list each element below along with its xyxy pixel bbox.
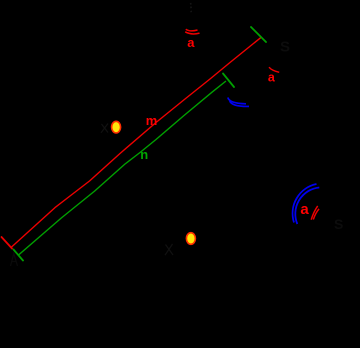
faint dashed vertical line top [190, 3, 193, 12]
faint A scribble bottom-left [11, 254, 18, 267]
svg-text:a: a [300, 201, 309, 218]
svg-text:a: a [187, 35, 195, 50]
tick at bottom end of line n [14, 250, 24, 261]
svg-text:S: S [334, 216, 343, 232]
faint label x near P1 [101, 124, 108, 133]
tick at top end of line n [223, 74, 234, 88]
angle arc b2 (large double blue arc, right) [293, 184, 320, 224]
svg-text:m: m [146, 113, 158, 128]
angle arc a3 (double red arc, right) [311, 206, 319, 220]
svg-text:S: S [280, 39, 290, 56]
faint label X near P2 [165, 244, 173, 255]
angle arc b1 (double blue arc, middle) [228, 98, 249, 107]
point P2 (yellow dot) [186, 233, 195, 245]
svg-text:a: a [268, 70, 276, 84]
line n [19, 81, 227, 255]
tick (green) at top end of line m [251, 27, 266, 42]
angle arc a2 (red, right of tick) [269, 67, 279, 72]
angle arc a1 (double red arc, top) [185, 29, 199, 34]
svg-text:n: n [140, 147, 148, 162]
point P1 (yellow dot) [112, 121, 121, 133]
tick at bottom end of line m [2, 237, 13, 249]
line m [11, 37, 261, 247]
